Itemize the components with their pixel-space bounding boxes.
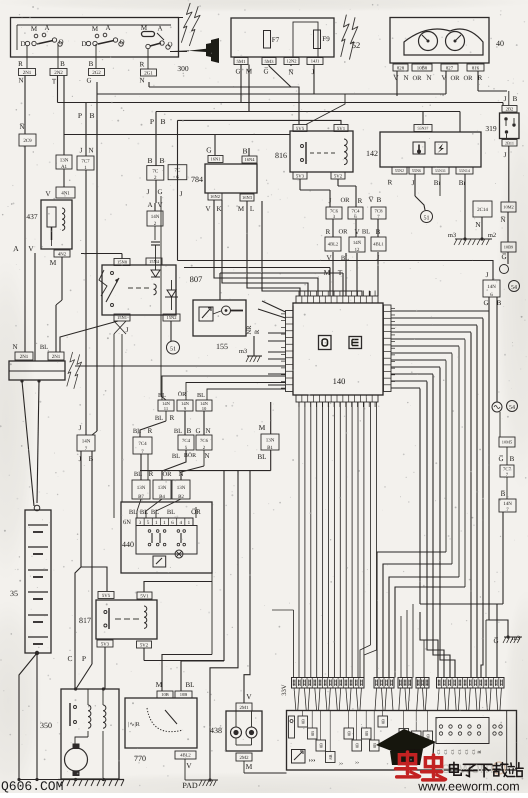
- svg-text:828: 828: [397, 65, 405, 71]
- svg-text:C3: C3: [457, 750, 462, 755]
- svg-text:BL: BL: [140, 509, 148, 516]
- svg-text:BL: BL: [151, 509, 159, 516]
- svg-text:m2: m2: [488, 232, 496, 239]
- svg-text:51: 51: [424, 216, 430, 222]
- svg-text:13N: 13N: [158, 485, 167, 491]
- svg-text:N: N: [475, 220, 481, 229]
- svg-text:J: J: [329, 197, 332, 205]
- svg-text:N̅: N̅: [288, 68, 293, 76]
- svg-text:V: V: [205, 205, 210, 213]
- svg-text:B: B: [513, 95, 518, 103]
- svg-text:2M2: 2M2: [239, 755, 249, 761]
- svg-text:10M5: 10M5: [502, 440, 513, 445]
- svg-text:J: J: [147, 188, 150, 196]
- svg-text:B: B: [159, 156, 164, 165]
- svg-text:G: G: [483, 299, 488, 307]
- svg-text:J: J: [504, 151, 507, 159]
- svg-text:54: 54: [511, 285, 517, 291]
- svg-text:›››: ›››: [309, 756, 316, 764]
- svg-text:L: L: [250, 205, 254, 213]
- svg-text:55N37: 55N37: [418, 126, 429, 131]
- svg-text:G̅: G̅: [501, 253, 506, 261]
- svg-text:C3: C3: [450, 750, 455, 755]
- svg-text:7C4: 7C4: [138, 441, 147, 447]
- svg-text:P: P: [150, 117, 154, 126]
- svg-text:A: A: [157, 25, 162, 33]
- svg-text:V: V: [186, 761, 192, 770]
- svg-text:B4: B4: [159, 494, 165, 500]
- svg-text:55N2: 55N2: [395, 168, 404, 173]
- svg-text:N: N: [205, 427, 210, 435]
- svg-text:7C: 7C: [175, 168, 182, 174]
- svg-text:T: T: [52, 78, 57, 86]
- svg-text:››: ››: [355, 760, 359, 766]
- svg-text:R: R: [148, 427, 153, 435]
- svg-text:J: J: [126, 326, 129, 334]
- svg-text:G: G: [195, 427, 200, 435]
- svg-text:M: M: [92, 25, 99, 33]
- svg-text:G: G: [157, 188, 162, 196]
- svg-text:7C7: 7C7: [81, 158, 90, 164]
- svg-text:2B11: 2B11: [505, 140, 514, 145]
- svg-text:2N2: 2N2: [54, 70, 63, 76]
- svg-text:www.eeworm.com: www.eeworm.com: [417, 780, 519, 794]
- svg-text:N: N: [426, 74, 431, 82]
- svg-text:V: V: [45, 190, 50, 198]
- svg-text:A1: A1: [61, 164, 68, 170]
- svg-text:BL: BL: [167, 509, 175, 516]
- svg-text:7C: 7C: [152, 168, 159, 174]
- svg-text:16N2: 16N2: [210, 194, 220, 199]
- svg-text:V: V: [157, 201, 162, 209]
- svg-text:G̅: G̅: [263, 67, 268, 75]
- svg-text:N: N: [403, 74, 408, 82]
- svg-text:Q606.COM: Q606.COM: [1, 779, 63, 793]
- svg-text:P: P: [78, 111, 82, 120]
- svg-text:54: 54: [509, 405, 515, 411]
- svg-text:C3: C3: [443, 750, 448, 755]
- svg-text:16N3: 16N3: [242, 195, 253, 200]
- svg-text:7C6: 7C6: [330, 208, 339, 214]
- svg-text:14N: 14N: [503, 501, 512, 507]
- svg-text:6N: 6N: [123, 519, 131, 526]
- svg-text:BL: BL: [40, 344, 48, 351]
- svg-text:33V: 33V: [281, 684, 288, 696]
- svg-text:8B: 8B: [319, 743, 324, 748]
- svg-text:12N2: 12N2: [287, 59, 297, 64]
- svg-text:P: P: [82, 654, 86, 663]
- svg-text:5V3: 5V3: [101, 641, 110, 647]
- svg-text:ÖR: ÖR: [162, 470, 172, 478]
- svg-text:55N14: 55N14: [459, 168, 470, 173]
- svg-text:m3: m3: [239, 348, 247, 355]
- svg-text:8B: 8B: [301, 719, 306, 724]
- svg-text:35: 35: [10, 589, 18, 598]
- svg-text:G̅: G̅: [493, 637, 498, 645]
- svg-text:R: R: [170, 414, 175, 422]
- svg-text:R: R: [388, 179, 393, 187]
- svg-text:m3: m3: [448, 232, 456, 239]
- svg-text:M: M: [259, 423, 266, 432]
- svg-text:››: ››: [339, 761, 343, 767]
- svg-text:15N2: 15N2: [167, 315, 177, 320]
- svg-text:A: A: [44, 24, 49, 32]
- svg-text:10: 10: [202, 406, 207, 411]
- svg-text:14N: 14N: [151, 214, 160, 220]
- svg-text:J: J: [504, 95, 507, 103]
- svg-text:5V5: 5V5: [296, 126, 305, 132]
- svg-text:B: B: [242, 147, 247, 156]
- svg-text:J: J: [180, 190, 183, 198]
- svg-text:438: 438: [210, 726, 222, 735]
- svg-text:N̅: N̅: [19, 123, 24, 131]
- svg-text:R: R: [326, 228, 331, 236]
- svg-text:2N1: 2N1: [20, 354, 29, 360]
- svg-text:15N8: 15N8: [117, 260, 128, 265]
- svg-text:55N31: 55N31: [435, 168, 446, 173]
- svg-text:OR: OR: [340, 197, 350, 204]
- svg-text:827: 827: [446, 65, 454, 71]
- svg-text:R: R: [149, 470, 154, 478]
- svg-text:2G2: 2G2: [92, 70, 101, 76]
- svg-text:15N1: 15N1: [117, 315, 127, 320]
- svg-text:5M1: 5M1: [236, 59, 246, 65]
- svg-text:N: N: [139, 77, 144, 85]
- svg-text:7C6: 7C6: [200, 438, 209, 444]
- svg-text:B: B: [89, 60, 94, 68]
- svg-text:|∿|R: |∿|R: [128, 721, 139, 728]
- svg-text:N: N: [12, 343, 17, 351]
- svg-text:R: R: [18, 60, 23, 68]
- svg-text:816: 816: [472, 65, 480, 71]
- svg-text:B̅: B̅: [501, 490, 506, 498]
- svg-text:2B2: 2B2: [506, 106, 514, 111]
- svg-text:4BL1: 4BL1: [373, 242, 384, 247]
- svg-text:BL: BL: [362, 229, 370, 236]
- svg-text:140: 140: [333, 376, 346, 386]
- svg-text:55N6: 55N6: [412, 168, 421, 173]
- svg-text:8B: 8B: [364, 731, 369, 736]
- svg-text:B: B: [89, 455, 94, 463]
- svg-text:14N: 14N: [487, 284, 496, 290]
- svg-text:m3: m3: [512, 635, 520, 642]
- svg-text:8B: 8B: [328, 754, 333, 759]
- svg-text:11: 11: [164, 406, 169, 411]
- svg-text:BL: BL: [197, 392, 205, 399]
- svg-text:BL: BL: [129, 509, 137, 516]
- svg-text:D: D: [20, 40, 25, 48]
- svg-text:4BL2: 4BL2: [328, 242, 339, 247]
- svg-text:Bı: Bı: [434, 179, 441, 187]
- svg-text:N: N: [18, 77, 23, 85]
- svg-text:10M2: 10M2: [503, 205, 514, 210]
- svg-text:V̅: V̅: [368, 196, 373, 204]
- svg-text:J: J: [80, 147, 83, 155]
- svg-text:52: 52: [352, 40, 361, 50]
- svg-text:10B: 10B: [161, 692, 169, 697]
- svg-text:V: V: [354, 228, 359, 236]
- svg-text:PAD: PAD: [182, 781, 197, 790]
- svg-text:14J1: 14J1: [311, 59, 320, 64]
- svg-text:BL: BL: [172, 453, 180, 460]
- svg-text:13N: 13N: [266, 437, 275, 443]
- svg-text:K: K: [216, 205, 221, 213]
- svg-text:51: 51: [170, 347, 176, 353]
- svg-text:350: 350: [40, 721, 52, 730]
- svg-text:437: 437: [26, 212, 38, 221]
- svg-text:8B: 8B: [372, 743, 377, 748]
- svg-text:C3: C3: [471, 750, 476, 755]
- svg-text:V: V: [246, 692, 252, 701]
- svg-text:770: 770: [134, 754, 146, 763]
- svg-text:J: J: [79, 424, 82, 432]
- svg-text:B: B: [187, 427, 192, 435]
- svg-text:G: G: [86, 77, 91, 85]
- svg-text:5V3: 5V3: [296, 173, 305, 179]
- svg-text:C3: C3: [436, 750, 441, 755]
- svg-text:NR: NR: [246, 325, 253, 335]
- svg-text:BL: BL: [186, 681, 195, 689]
- svg-text:2M1: 2M1: [239, 705, 249, 711]
- svg-text:N: N: [204, 452, 209, 460]
- svg-text:Bı: Bı: [459, 179, 466, 187]
- svg-text:784: 784: [191, 175, 203, 184]
- svg-text:M: M: [31, 25, 38, 33]
- svg-text:4N2: 4N2: [58, 251, 67, 257]
- svg-text:C3: C3: [464, 750, 469, 755]
- svg-text:10B9: 10B9: [504, 245, 514, 250]
- svg-text:D: D: [81, 40, 86, 48]
- svg-text:OR: OR: [338, 229, 348, 236]
- svg-text:R: R: [358, 197, 363, 205]
- svg-text:807: 807: [190, 274, 203, 284]
- svg-text:A: A: [105, 24, 110, 32]
- svg-text:M: M: [238, 205, 245, 213]
- svg-text:BL: BL: [155, 415, 163, 422]
- svg-text:13N: 13N: [60, 157, 69, 163]
- svg-text:440: 440: [122, 540, 134, 549]
- svg-text:R: R: [140, 61, 145, 69]
- svg-text:5V2: 5V2: [334, 173, 343, 179]
- svg-text:10B8: 10B8: [417, 65, 428, 71]
- svg-text:B: B: [89, 111, 94, 120]
- svg-text:N̅: N̅: [500, 216, 505, 224]
- svg-text:G: G: [206, 146, 212, 155]
- svg-text:2C9: 2C9: [23, 138, 32, 144]
- svg-text:C: C: [67, 654, 72, 663]
- svg-text:M: M: [141, 24, 148, 32]
- svg-text:R: R: [254, 329, 261, 334]
- svg-text:B: B: [147, 156, 152, 165]
- svg-text:4BL2: 4BL2: [180, 753, 191, 758]
- svg-text:V: V: [28, 244, 34, 253]
- svg-text:5M3: 5M3: [264, 59, 274, 65]
- svg-text:13N: 13N: [137, 485, 146, 491]
- svg-text:15N4: 15N4: [149, 259, 160, 264]
- svg-text:B2: B2: [178, 494, 184, 500]
- svg-text:5V1: 5V1: [140, 593, 149, 599]
- svg-text:10B: 10B: [180, 692, 188, 697]
- svg-text:2N1: 2N1: [52, 354, 61, 360]
- svg-text:B: B: [377, 196, 382, 204]
- svg-text:5V5: 5V5: [102, 593, 111, 599]
- svg-text:16N4: 16N4: [245, 157, 256, 162]
- svg-text:A: A: [147, 201, 152, 209]
- svg-text:2C14: 2C14: [477, 207, 488, 213]
- svg-text:OR: OR: [463, 75, 473, 82]
- svg-text:5V2: 5V2: [140, 642, 149, 648]
- svg-text:142: 142: [366, 149, 378, 158]
- svg-text:155: 155: [216, 342, 228, 351]
- svg-text:2G1: 2G1: [144, 70, 153, 76]
- svg-text:2N1: 2N1: [23, 70, 32, 76]
- svg-text:4N1: 4N1: [61, 190, 70, 196]
- svg-text:319: 319: [485, 124, 497, 133]
- svg-text:F9: F9: [322, 35, 330, 43]
- svg-text:M: M: [246, 762, 253, 771]
- svg-text:16N1: 16N1: [211, 157, 221, 162]
- svg-text:8B: 8B: [355, 743, 360, 748]
- svg-text:8B: 8B: [347, 731, 352, 736]
- svg-text:8B: 8B: [381, 719, 386, 724]
- svg-text:OR: OR: [412, 75, 422, 82]
- svg-text:F7: F7: [272, 36, 280, 44]
- svg-text:B: B: [60, 60, 65, 68]
- svg-text:5V1: 5V1: [337, 126, 346, 132]
- svg-text:J: J: [412, 179, 415, 187]
- svg-text:BL: BL: [174, 428, 182, 435]
- svg-text:8B: 8B: [310, 731, 315, 736]
- svg-text:B: B: [160, 117, 165, 126]
- svg-text:12: 12: [355, 247, 360, 253]
- svg-text:M: M: [156, 680, 163, 689]
- svg-text:M: M: [50, 258, 57, 267]
- svg-text:B: B: [510, 455, 515, 463]
- svg-text:N: N: [88, 147, 93, 155]
- svg-text:G̅: G̅: [498, 455, 503, 463]
- svg-text:G: G: [235, 68, 240, 76]
- svg-text:7C4: 7C4: [352, 208, 361, 214]
- svg-text:7C4: 7C4: [182, 438, 191, 444]
- svg-text:J: J: [486, 271, 489, 279]
- svg-text:BL: BL: [258, 453, 267, 461]
- svg-text:816: 816: [275, 151, 287, 160]
- svg-text:OR: OR: [450, 75, 460, 82]
- svg-text:13N: 13N: [177, 485, 186, 491]
- svg-text:14N: 14N: [82, 438, 91, 444]
- svg-text:300: 300: [177, 64, 189, 73]
